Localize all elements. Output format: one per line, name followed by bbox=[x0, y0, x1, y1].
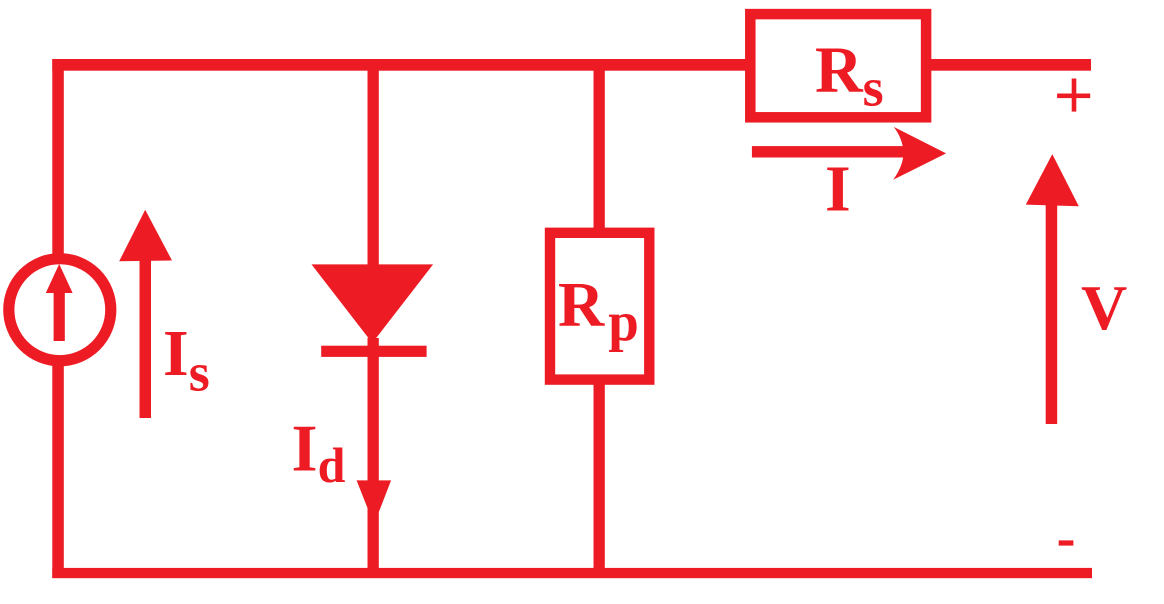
svg-text:Is: Is bbox=[163, 317, 210, 403]
wire left upper bbox=[52, 59, 64, 258]
current Id arrowhead bbox=[357, 480, 392, 524]
diode D1 cathode bar bbox=[321, 346, 426, 357]
wire Rp top bbox=[594, 59, 605, 233]
voltage V arrow bbox=[1026, 154, 1079, 424]
resistor Rp box bbox=[550, 233, 649, 380]
current I arrow bbox=[752, 127, 946, 180]
wire left lower bbox=[52, 362, 64, 578]
svg-text:Rp: Rp bbox=[558, 269, 639, 353]
wire Rp bottom bbox=[594, 380, 605, 573]
wire top-left segment bbox=[52, 59, 750, 71]
label minus bbox=[1059, 540, 1074, 545]
svg-text:Id: Id bbox=[292, 412, 346, 493]
svg-text:V: V bbox=[1081, 272, 1127, 343]
diode D1 triangle bbox=[312, 264, 434, 343]
wire top-right segment bbox=[926, 59, 1091, 71]
current source CS1 circle bbox=[9, 259, 111, 361]
current Is arrow bbox=[119, 210, 172, 418]
svg-text:Rs: Rs bbox=[815, 33, 884, 117]
svg-text:I: I bbox=[825, 153, 851, 226]
wire diode top bbox=[368, 59, 379, 269]
label plus bbox=[1057, 79, 1090, 112]
resistor Rs box bbox=[750, 14, 926, 117]
wire diode bottom bbox=[368, 338, 379, 573]
wire bottom bbox=[52, 568, 1092, 578]
current source CS1 arrow bbox=[46, 264, 73, 341]
